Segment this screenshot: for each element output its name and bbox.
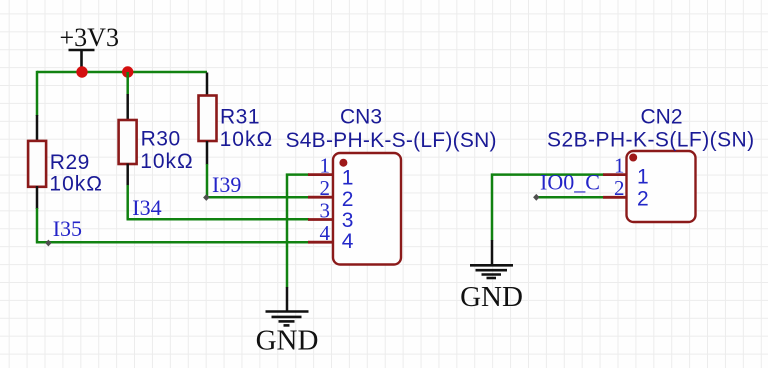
resistor R29 xyxy=(28,115,103,209)
power +3V3 xyxy=(60,23,119,72)
wire R29 top branch xyxy=(36,71,39,116)
CN3 pin 4 xyxy=(308,221,333,245)
marker at R31 wire corner xyxy=(203,194,209,201)
svg-text:I34: I34 xyxy=(132,195,161,220)
svg-text:4: 4 xyxy=(342,230,354,253)
wire IO0_C to CN2 pin 2 xyxy=(536,196,604,199)
ground below CN2 wire xyxy=(460,240,523,313)
svg-text:1: 1 xyxy=(320,153,331,177)
svg-text:2: 2 xyxy=(614,176,625,200)
svg-text:2: 2 xyxy=(342,188,354,211)
svg-text:2: 2 xyxy=(637,188,649,211)
svg-text:R30: R30 xyxy=(141,128,181,151)
svg-text:S4B-PH-K-S-(LF)(SN): S4B-PH-K-S-(LF)(SN) xyxy=(286,129,497,152)
wire R31 bottom to CN3 pin 2 xyxy=(206,164,309,197)
svg-text:10kΩ: 10kΩ xyxy=(49,173,103,196)
svg-text:I39: I39 xyxy=(212,172,241,197)
marker on I35 wire xyxy=(45,240,51,247)
ground below CN3 xyxy=(256,287,319,357)
svg-text:2: 2 xyxy=(320,176,331,200)
svg-text:CN3: CN3 xyxy=(340,106,382,129)
connector CN3 xyxy=(286,106,497,265)
svg-text:CN2: CN2 xyxy=(641,106,683,129)
svg-text:R31: R31 xyxy=(220,106,260,129)
wire top rail +3V3 xyxy=(37,71,207,74)
svg-text:IO0_C: IO0_C xyxy=(540,170,600,195)
CN3 pin 3 xyxy=(308,198,333,222)
wire CN3 pin 1 to ground xyxy=(287,175,309,288)
wire R30 bottom to CN3 pin 3 xyxy=(127,185,310,219)
svg-text:3: 3 xyxy=(320,198,331,222)
junction at +3V3 stem xyxy=(76,66,87,77)
svg-text:4: 4 xyxy=(320,221,331,245)
svg-text:3: 3 xyxy=(342,209,354,232)
junction at R30 top xyxy=(122,66,133,77)
svg-text:10kΩ: 10kΩ xyxy=(220,128,274,151)
CN3 pin 2 xyxy=(308,176,333,200)
svg-text:10kΩ: 10kΩ xyxy=(140,150,194,173)
svg-text:1: 1 xyxy=(614,153,625,177)
wire CN2 pin 1 to ground xyxy=(492,175,604,241)
svg-text:GND: GND xyxy=(256,325,319,357)
CN2 pin 1 xyxy=(603,153,627,177)
connector CN2 xyxy=(547,106,755,222)
svg-text:1: 1 xyxy=(342,167,354,190)
svg-text:R29: R29 xyxy=(50,151,90,174)
marker at IO0_C wire end xyxy=(533,194,539,201)
svg-text:1: 1 xyxy=(637,166,649,189)
svg-text:+3V3: +3V3 xyxy=(60,23,119,52)
CN2 pin 2 xyxy=(603,176,627,200)
wire R30 top branch xyxy=(126,72,129,95)
svg-text:S2B-PH-K-S(LF)(SN): S2B-PH-K-S(LF)(SN) xyxy=(547,129,755,152)
svg-text:I35: I35 xyxy=(53,216,82,241)
wire R29 bottom to CN3 pin 4 xyxy=(36,208,309,242)
resistor R30 xyxy=(119,94,194,186)
resistor R31 xyxy=(199,73,274,165)
CN3 pin 1 xyxy=(308,153,333,177)
svg-text:GND: GND xyxy=(460,281,523,313)
